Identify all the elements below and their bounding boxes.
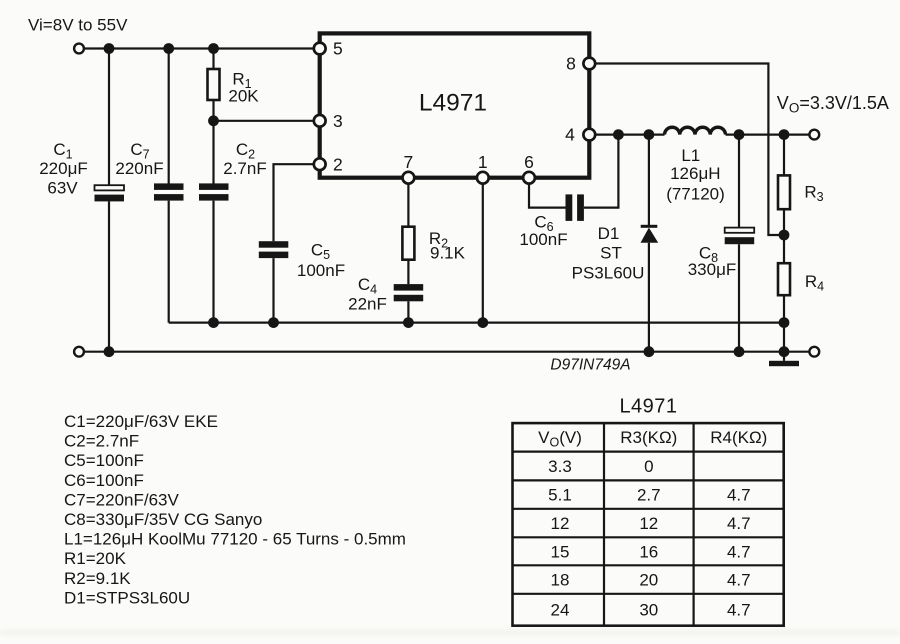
- svg-text:C8=330μF/35V CG Sanyo: C8=330μF/35V CG Sanyo: [64, 510, 262, 529]
- output terminal (top right): [809, 130, 819, 140]
- svg-text:4.7: 4.7: [727, 600, 751, 619]
- wire: pin 2 to C5: [274, 164, 314, 241]
- wire: C7 upper lead: [168, 49, 170, 184]
- output return terminal (bottom right): [809, 347, 819, 357]
- node: C8 on bottom rail: [734, 346, 745, 357]
- svg-text:R2=9.1K: R2=9.1K: [64, 569, 131, 588]
- svg-text:4.7: 4.7: [727, 514, 751, 533]
- svg-text:R3(KΩ): R3(KΩ): [620, 428, 677, 447]
- svg-text:C7=220nF/63V: C7=220nF/63V: [64, 490, 179, 509]
- svg-text:2: 2: [333, 155, 343, 175]
- label C2 2.7nF: [223, 140, 266, 178]
- svg-text:4.7: 4.7: [727, 485, 751, 504]
- inductor L1: [665, 127, 726, 134]
- svg-text:4.7: 4.7: [727, 570, 751, 589]
- ground symbol: [769, 361, 799, 366]
- label C4 22nF: [348, 275, 387, 314]
- node: R4 on ground bus: [779, 317, 790, 328]
- resistor R2: [402, 227, 414, 260]
- label D1 ST PS3L60U: [572, 224, 645, 283]
- wire: C6 right plate up to switch rail: [584, 135, 619, 208]
- svg-text:Vi=8V to 55V: Vi=8V to 55V: [28, 16, 128, 35]
- label C7 220nF: [115, 140, 163, 178]
- wire: output rail to R3: [783, 135, 785, 176]
- node: pin 1 on ground bus: [477, 317, 488, 328]
- node: R1/C2/pin3 junction: [208, 115, 219, 126]
- capacitor C6: [566, 194, 584, 221]
- wire: C1 upper lead: [108, 49, 110, 186]
- svg-text:1: 1: [478, 152, 488, 172]
- label C8 330uF: [688, 244, 737, 280]
- wire: L1 to output terminal: [726, 134, 810, 136]
- svg-text:63V: 63V: [47, 179, 78, 198]
- svg-text:126μH: 126μH: [670, 164, 720, 183]
- svg-text:ST: ST: [600, 244, 622, 263]
- svg-text:220μF: 220μF: [39, 159, 88, 178]
- svg-text:L4971: L4971: [419, 90, 487, 117]
- label C6 100nF: [519, 213, 567, 250]
- diode D1: [641, 225, 659, 243]
- svg-text:R4(KΩ): R4(KΩ): [710, 428, 767, 447]
- svg-text:2.7: 2.7: [637, 485, 661, 504]
- svg-text:100nF: 100nF: [519, 230, 567, 249]
- label R1 20K: [228, 70, 259, 106]
- wire: bottom return rail: [84, 351, 809, 353]
- svg-text:D97IN749A: D97IN749A: [550, 357, 630, 374]
- svg-text:12: 12: [639, 514, 658, 533]
- faint scan artifact band at bottom edge: [0, 630, 900, 635]
- pin 7: [403, 172, 415, 184]
- wire: R3 to R4: [783, 209, 785, 263]
- wire: pin 6 down and right to C6: [529, 184, 566, 208]
- input terminal (top left): [74, 44, 84, 54]
- wire: R4 to ground: [783, 295, 785, 361]
- wire: C7 lower lead: [168, 201, 170, 323]
- svg-text:3.3: 3.3: [548, 457, 572, 476]
- wire: junction to pin 3: [214, 120, 314, 122]
- IC U1 L4971 body: [320, 33, 590, 177]
- wire: switch rail pin 4 to L1: [595, 134, 664, 136]
- svg-text:0: 0: [644, 457, 653, 476]
- node: C5 on ground bus: [268, 317, 279, 328]
- wire: C1 lower lead: [108, 201, 110, 351]
- svg-text:100nF: 100nF: [297, 261, 345, 280]
- wire: C2 lower lead: [212, 201, 214, 323]
- legend: component list: [64, 412, 406, 607]
- svg-text:22nF: 22nF: [348, 295, 387, 314]
- pin 3: [314, 115, 326, 127]
- svg-text:(77120): (77120): [666, 185, 725, 204]
- svg-text:220nF: 220nF: [115, 159, 163, 178]
- label C1 220uF 63V: [39, 140, 88, 198]
- wire: R2 to C4: [407, 260, 409, 285]
- capacitor C8 (polarized): [725, 228, 755, 245]
- input return terminal (bottom left): [74, 347, 84, 357]
- svg-text:C6=100nF: C6=100nF: [64, 471, 144, 490]
- svg-text:D1: D1: [598, 224, 620, 243]
- node: C2 on ground bus: [208, 317, 219, 328]
- svg-text:C5=100nF: C5=100nF: [64, 451, 144, 470]
- node: ground stub on bottom rail: [779, 346, 790, 357]
- svg-text:C2=2.7nF: C2=2.7nF: [64, 432, 139, 451]
- capacitor C2: [199, 183, 229, 200]
- svg-text:4.7: 4.7: [727, 542, 751, 561]
- node: C1 tap on input rail: [104, 43, 115, 54]
- svg-text:9.1K: 9.1K: [430, 244, 466, 263]
- svg-text:C1=220μF/63V EKE: C1=220μF/63V EKE: [64, 412, 218, 431]
- svg-text:24: 24: [551, 600, 570, 619]
- svg-text:6: 6: [524, 152, 534, 172]
- svg-text:L4971: L4971: [619, 396, 677, 418]
- resistor R4: [778, 263, 790, 295]
- node: C7 tap on input rail: [163, 43, 174, 54]
- resistor R1: [208, 69, 220, 100]
- table header row: [538, 428, 767, 450]
- svg-text:7: 7: [404, 152, 414, 172]
- svg-text:D1=STPS3L60U: D1=STPS3L60U: [64, 588, 190, 607]
- wire: ground bus (mid): [169, 322, 784, 324]
- svg-text:15: 15: [551, 542, 570, 561]
- node: R3 tap on output rail: [779, 129, 790, 140]
- wire: R1 upper lead: [212, 49, 214, 70]
- svg-text:20K: 20K: [228, 87, 259, 106]
- pin 4: [583, 129, 595, 141]
- node: feedback divider junction R3/R4: [779, 230, 790, 241]
- svg-text:8: 8: [566, 54, 576, 74]
- svg-text:2.7nF: 2.7nF: [223, 159, 266, 178]
- table data rows: [548, 457, 750, 619]
- svg-text:L1=126μH KoolMu 77120 - 65 Tur: L1=126μH KoolMu 77120 - 65 Turns - 0.5mm: [64, 530, 406, 549]
- wire: C8 upper lead: [738, 135, 740, 228]
- node: R1 tap on input rail: [208, 43, 219, 54]
- node: C1 on bottom rail: [104, 346, 115, 357]
- svg-text:PS3L60U: PS3L60U: [572, 264, 645, 283]
- pin 6: [523, 172, 535, 184]
- svg-text:3: 3: [333, 111, 343, 131]
- pin 8: [583, 58, 595, 70]
- wire: pin 8 feedback line: [595, 64, 784, 236]
- label L1 126uH (77120): [666, 146, 725, 204]
- wire: pin 1 to ground bus: [482, 184, 484, 323]
- capacitor C5: [259, 241, 289, 258]
- node: C4 on ground bus: [403, 317, 414, 328]
- node: C6 link on switch rail: [613, 129, 624, 140]
- svg-text:16: 16: [639, 542, 658, 561]
- wire: R1 bottom to C2 top: [212, 100, 214, 184]
- svg-text:L1: L1: [681, 146, 700, 165]
- node: D1 cathode on switch rail: [644, 129, 655, 140]
- node: D1 on bottom rail: [644, 346, 655, 357]
- svg-text:5.1: 5.1: [548, 485, 572, 504]
- wire: C4 lower lead: [407, 301, 409, 322]
- pin 2: [314, 158, 326, 170]
- pin 5: [314, 43, 326, 55]
- svg-text:5: 5: [333, 39, 343, 59]
- wire: C5 lower lead: [272, 258, 274, 323]
- resistor R3: [778, 175, 790, 209]
- wire: D1 cathode lead: [648, 135, 650, 226]
- pin 1: [477, 172, 489, 184]
- capacitor C1 (polarized): [95, 185, 125, 201]
- svg-text:20: 20: [639, 570, 658, 589]
- svg-text:R1=20K: R1=20K: [64, 549, 127, 568]
- svg-text:4: 4: [565, 125, 575, 145]
- label C5 100nF: [297, 241, 345, 281]
- node: C8 tap on output rail: [734, 129, 745, 140]
- svg-text:30: 30: [639, 600, 658, 619]
- wire: top input rail: [84, 47, 314, 49]
- wire: D1 anode to bottom rail: [648, 243, 650, 352]
- wire: pin 7 to R2: [407, 184, 409, 227]
- table frame: [513, 423, 784, 626]
- label R2 9.1K: [429, 229, 466, 263]
- wire: C8 lower lead: [738, 244, 740, 352]
- svg-text:12: 12: [551, 514, 570, 533]
- svg-text:330μF: 330μF: [688, 260, 737, 279]
- svg-text:VO(V): VO(V): [538, 428, 582, 450]
- svg-text:18: 18: [551, 570, 570, 589]
- capacitor C7: [154, 183, 184, 200]
- capacitor C4: [394, 284, 424, 301]
